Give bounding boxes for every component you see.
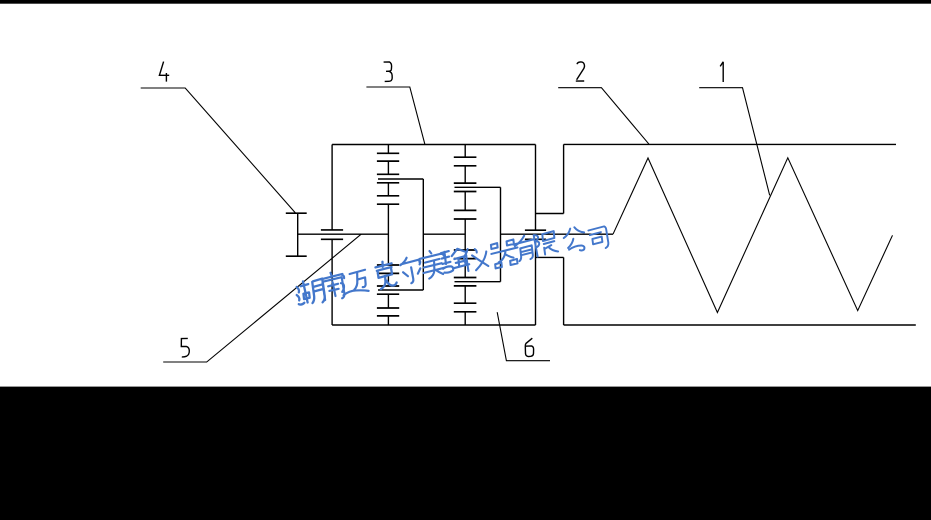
coupling bottom cap (286, 255, 307, 257)
top black bar (0, 0, 931, 4)
bearing at gearbox left wall (321, 230, 343, 239)
shaft tunnel bottom line (536, 256, 564, 258)
watermark char er (399, 255, 423, 284)
coupling vertical bar (297, 213, 299, 256)
right box left wall lower (563, 257, 565, 325)
input coupling (item 4) (286, 213, 307, 256)
watermark company name (294, 226, 609, 307)
input shaft segment (298, 233, 389, 235)
watermark char qi (489, 239, 520, 269)
digit 5 (181, 338, 189, 357)
watermark char si (588, 226, 609, 250)
watermark char shi (418, 249, 448, 280)
watermark char you (512, 234, 538, 262)
gearbox housing (item 3) (332, 145, 535, 326)
gearbox top edge (332, 144, 535, 146)
bearing at gearbox right wall (525, 230, 546, 239)
gear shaft II tooth plates (454, 157, 477, 312)
gearbox right wall lower (535, 239, 537, 325)
leader line 5 (163, 234, 361, 362)
leader line 3 (366, 87, 425, 144)
gear shaft I tooth plates (377, 153, 399, 316)
right test-section box (item 1/2 housing) (536, 144, 916, 325)
watermark char ke (375, 260, 398, 289)
digit 2 (576, 62, 585, 81)
digit 4 (159, 62, 169, 82)
torsion spring zigzag (items 1,2) (613, 158, 893, 313)
digit 3 (384, 62, 393, 82)
right box top edge (564, 143, 896, 145)
gear shaft II vertical segments (464, 145, 466, 326)
watermark char mai (339, 270, 369, 296)
leader line 6 (497, 312, 550, 361)
digit 6 (525, 338, 533, 356)
leader line 1 (699, 88, 770, 196)
coupling top cap (286, 212, 307, 214)
gear shaft I vertical segments (387, 145, 389, 326)
watermark char gong (562, 226, 587, 254)
right box left wall upper (563, 144, 565, 213)
gear sleeve rectangle on shaft I (378, 179, 423, 290)
watermark char yi (463, 246, 490, 272)
gearbox left wall lower (331, 239, 333, 325)
main shaft center line (item 5) (298, 233, 613, 235)
gearbox right wall upper (535, 145, 537, 231)
shaft tunnel top line (536, 213, 564, 215)
watermark char xian (534, 231, 559, 256)
gearbox bottom edge (332, 324, 535, 326)
bottom black bar (0, 387, 931, 520)
gear sleeve rectangle on shaft II (item 6) (455, 187, 501, 281)
watermark char yan (440, 247, 470, 273)
intermediate shaft segment (423, 233, 465, 235)
right box bottom edge (564, 324, 916, 326)
gearbox left wall upper (331, 145, 333, 230)
digit 1 (720, 62, 723, 82)
output shaft segment (501, 233, 614, 235)
leader line 2 (558, 88, 649, 145)
watermark char nan (320, 271, 347, 302)
leader line 4 (141, 88, 296, 213)
watermark char hu (294, 278, 326, 307)
